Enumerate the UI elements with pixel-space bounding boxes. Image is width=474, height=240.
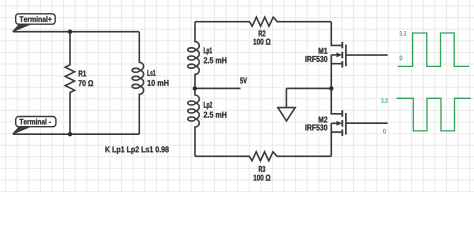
transistor M2 gate plate [345, 113, 347, 135]
transistor M1 channel bars [342, 42, 346, 136]
flag Terminal- [13, 117, 56, 135]
transistor M2 bulk arrow [337, 121, 342, 125]
node 5V junction [193, 86, 197, 90]
label M2 part IRF530 [305, 124, 327, 130]
label Ls1 value [148, 80, 169, 86]
label R2 [259, 30, 266, 36]
wire middle bottom with resistor R3 [195, 152, 331, 161]
label M1 part IRF530 [305, 56, 327, 62]
label R1 value [79, 80, 94, 86]
transistor M2 gate lead [346, 122, 388, 124]
flag text Terminal+ [19, 16, 51, 22]
wire middle top with resistor R2 [195, 17, 331, 26]
label waveform1 0 [400, 56, 403, 61]
inductor Ls1 [139, 32, 143, 135]
label M1 [319, 48, 328, 54]
label R3 [259, 166, 265, 172]
label Lp1 value [204, 57, 227, 63]
waveform 1 (M1 gate) [398, 33, 470, 66]
label R1 [79, 71, 86, 77]
transistor M1 gate lead [346, 54, 388, 56]
transistor M1 source + bulk wires [331, 55, 341, 89]
ground symbol [278, 88, 295, 121]
label Ls1 [147, 70, 155, 76]
inductor Lp2 [195, 88, 199, 156]
junction node dots [68, 30, 334, 137]
flag Terminal+ [13, 14, 56, 32]
transistor M2 drain wire [331, 88, 341, 113]
label R3 value [254, 175, 271, 181]
node mid junction (M1 source / M2 drain / ground) [329, 86, 333, 90]
label waveform2 0 [383, 129, 386, 134]
transistor M1 gate plate [345, 45, 347, 67]
node top-left junction [68, 30, 72, 34]
resistor R1 [65, 32, 74, 135]
transistor M1 bulk arrow [337, 53, 342, 57]
wire 5V stub [195, 87, 241, 89]
label waveform2 3.3 [381, 98, 388, 103]
label K coupling statement [105, 146, 168, 154]
label R2 value [253, 39, 270, 45]
flag text Terminal - [19, 119, 50, 125]
transistor M2 source + bulk wires [331, 123, 341, 156]
node bottom-left junction [68, 132, 72, 136]
wire bottom-left (Terminal- to Ls1) [13, 133, 139, 135]
label M2 [319, 117, 328, 123]
label Lp1 [204, 47, 212, 55]
inductor Lp1 [195, 22, 199, 89]
transistor M2 channel bars [341, 110, 343, 136]
ground wire [286, 87, 331, 89]
waveform 2 (M2 gate) [397, 98, 471, 131]
label Lp2 value [204, 112, 227, 118]
label Lp2 [204, 102, 212, 110]
transistor M1 drain wire [331, 22, 341, 46]
label waveform1 3.3 [399, 31, 406, 36]
label 5V net [240, 78, 247, 84]
wire top-left (Terminal+ to Ls1) [13, 31, 139, 33]
